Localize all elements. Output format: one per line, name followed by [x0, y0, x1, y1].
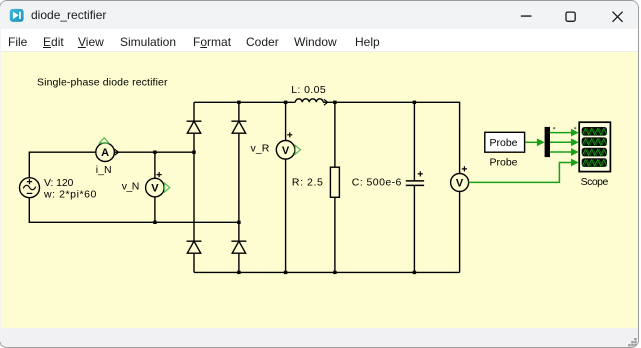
svg-text:Probe: Probe: [490, 157, 518, 169]
svg-text:v_R: v_R: [251, 142, 270, 154]
svg-text:A: A: [101, 147, 109, 159]
svg-text:i_N: i_N: [96, 164, 112, 176]
svg-text:C: 500e-6: C: 500e-6: [352, 177, 402, 189]
svg-text:V: V: [282, 145, 290, 157]
svg-text:v_N: v_N: [122, 181, 140, 193]
svg-text:V: V: [151, 183, 159, 195]
svg-text:V: 120: V: 120: [44, 177, 74, 189]
svg-text:L: 0.05: L: 0.05: [291, 84, 326, 96]
svg-text:Scope: Scope: [581, 176, 609, 188]
svg-text:V: V: [456, 178, 464, 190]
svg-text:w: 2*pi*60: w: 2*pi*60: [43, 188, 97, 200]
svg-text:Probe: Probe: [490, 137, 518, 149]
svg-text:R: 2.5: R: 2.5: [292, 177, 323, 189]
svg-text:Single-phase diode rectifier: Single-phase diode rectifier: [37, 77, 168, 89]
